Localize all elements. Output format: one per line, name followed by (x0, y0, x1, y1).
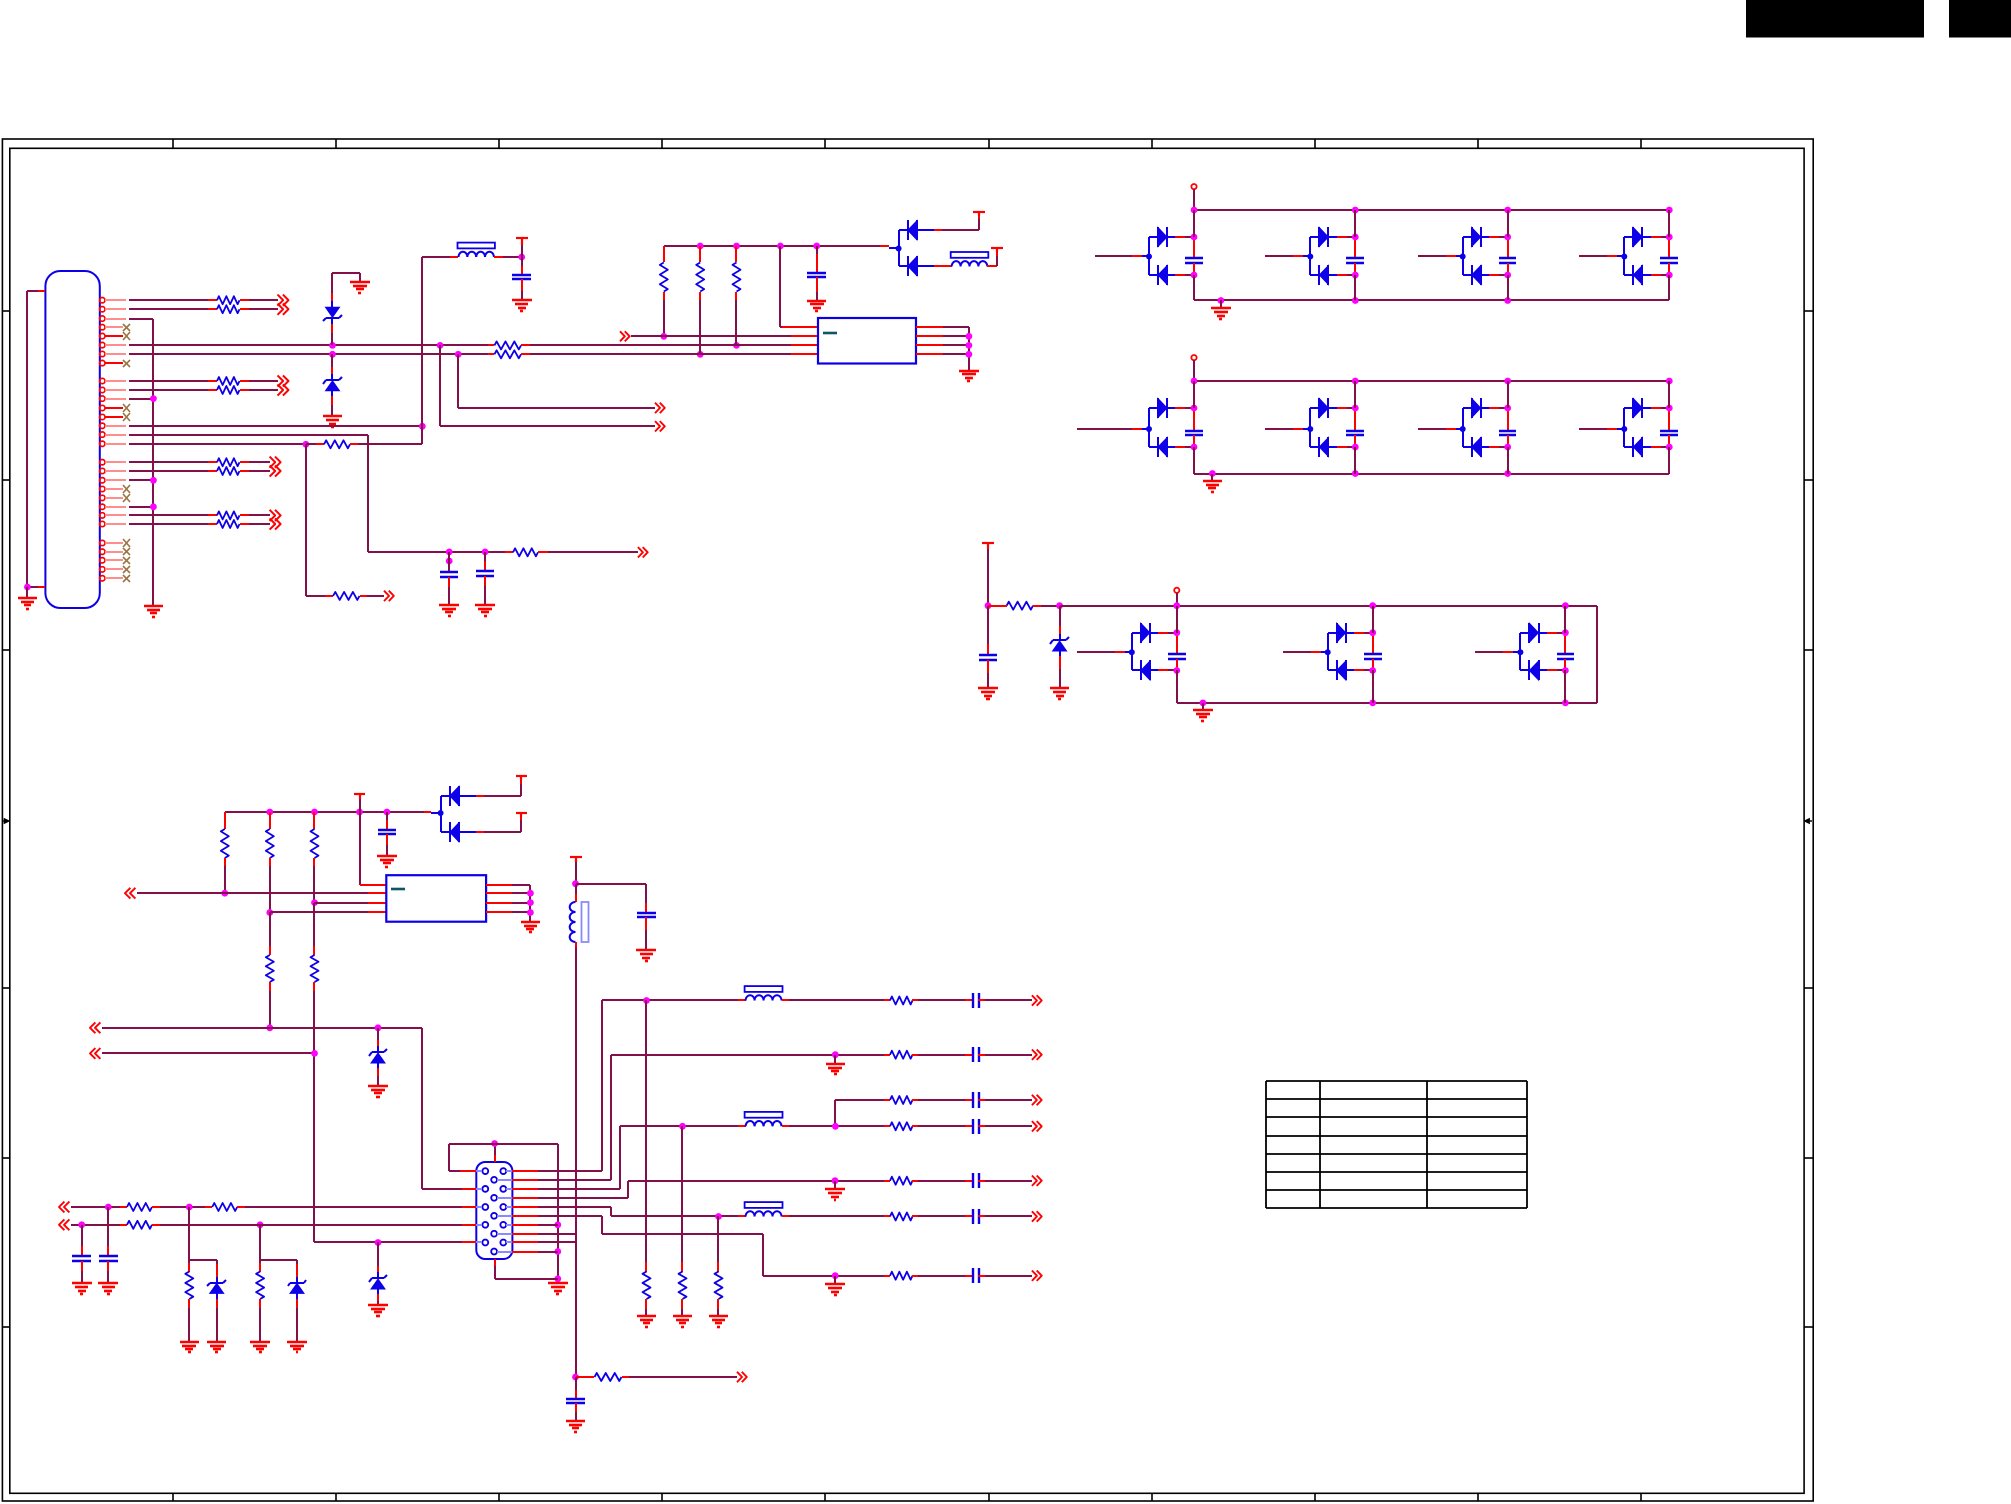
ground row1 (1211, 300, 1231, 319)
resistor R19 (266, 812, 274, 916)
clamp diode pair Q1c row1 cell3 (1418, 210, 1516, 300)
wire D5 bottom to VCC (484, 815, 521, 832)
wire D5 top to VCC (484, 778, 521, 796)
connector J1 body (45, 271, 99, 608)
clamp diode pair Q3c row3 cell3 (1475, 606, 1574, 703)
wire J2 pinI to DDC (512, 1241, 576, 1243)
wire pin19 to bus (129, 477, 157, 484)
wire FB2 to VCC (996, 250, 998, 266)
bottom rail row1 (1194, 297, 1669, 304)
right edge row3 (1596, 606, 1598, 703)
clamp diode pair Q2c row2 cell3 (1418, 381, 1516, 474)
wire J2 pinF to row G (512, 1216, 763, 1276)
power rail U2 (225, 809, 431, 816)
ground D9 (287, 1342, 307, 1352)
connector J1 pins (100, 298, 105, 582)
connector J2 pins middle column (491, 1177, 497, 1255)
regulator U1 mark (823, 332, 837, 335)
wire pin11 to bus (129, 395, 157, 402)
connector J2 pins right column (500, 1168, 506, 1245)
wire B row terminator (260, 1225, 297, 1264)
wire pin15 row (368, 549, 513, 565)
ground row G (825, 1276, 845, 1295)
regulator U2 box (386, 875, 486, 922)
resistor R21 (266, 912, 274, 1028)
wire R row terminator (189, 1207, 217, 1264)
resistor R10 on pin7 bus (494, 350, 818, 358)
wire rail to U1 pin1 (780, 246, 818, 327)
chevron input U2 (125, 888, 386, 899)
ground U1 (959, 371, 979, 381)
capacitor C7 (637, 913, 656, 950)
wire pin3 ground bus (129, 319, 153, 606)
wire zener top to ground (332, 273, 360, 282)
clamp diode pair Q3a row3 cell1 (1077, 606, 1186, 703)
zener D9 (288, 1264, 306, 1342)
power VCC T2 (973, 212, 985, 216)
resistor R18 (221, 812, 229, 897)
resistor R26 pulldown (679, 1126, 687, 1316)
resistor R20 (311, 812, 319, 906)
wire J2 pinG to ground bus (512, 1224, 558, 1226)
wire J2 pinA to row A (512, 1000, 602, 1171)
wire D3 top to VCC (942, 213, 979, 230)
wire T8 to C7 (576, 884, 646, 913)
wire J2 pinH to DDC (512, 1233, 576, 1235)
clamp diode pair Q1d row1 cell4 (1579, 210, 1678, 300)
ground R24 (250, 1342, 270, 1352)
wire connector shell bottom (24, 584, 45, 598)
wire J2 pinC to row D (512, 1126, 620, 1189)
signal row D output (620, 1112, 1042, 1134)
ground D6 (368, 1305, 388, 1316)
clamp diode pair Q3b row3 cell2 (1283, 606, 1382, 703)
power VCC T8 (570, 857, 582, 887)
wire pin14 (129, 423, 426, 430)
ground D8 (207, 1342, 226, 1352)
ground D4 (1050, 688, 1069, 699)
ground R25 (637, 1316, 656, 1327)
wire net pin6 bus (129, 342, 494, 349)
wire J2 pin5 left (314, 1053, 476, 1246)
ground pin bus (144, 606, 163, 617)
connector J1 pin stubs (105, 300, 126, 578)
chevron input B (59, 1219, 476, 1230)
resistor R25 pulldown (643, 1000, 651, 1316)
regulator U2 right pins (486, 885, 534, 922)
border center arrow left (2, 819, 9, 824)
zener D6 (369, 1242, 387, 1305)
clamp diode pair Q2b row2 cell2 (1265, 381, 1364, 474)
resistor R16 (733, 246, 741, 345)
power VCC T4 (982, 543, 994, 609)
clamp diode pair Q1a row1 cell1 (1095, 210, 1203, 300)
wire J2 shell top (449, 1140, 558, 1171)
power circle row1 (1191, 184, 1196, 210)
capacitor C3 (476, 552, 494, 605)
wire J2 pinJ to ground bus (512, 1251, 558, 1253)
capacitor C1 (512, 257, 531, 300)
resistor R24 (256, 1260, 264, 1342)
capacitor C6 (378, 812, 396, 856)
ground C8 (98, 1283, 118, 1294)
capacitor C2 (440, 552, 458, 605)
resistor R17 (988, 602, 1063, 610)
power VCC T7 (516, 813, 527, 817)
power rail U1 (664, 243, 889, 250)
ground C3 (475, 605, 495, 616)
power circle row3 (1174, 588, 1179, 606)
signal row G output (763, 1268, 1042, 1283)
signal row E output (628, 1173, 1042, 1188)
resistor R8 pin24 (129, 518, 281, 529)
resistor R4 pin10 (129, 384, 289, 395)
signal row C output (835, 1092, 1042, 1126)
resistor R11 pin16 (324, 440, 422, 448)
ground C7 (636, 950, 656, 961)
wire J2 ground bus (554, 1144, 561, 1283)
revision table (1266, 1081, 1527, 1208)
top rail row1 (1191, 207, 1673, 214)
wire U2 pin1 feed (360, 812, 386, 885)
ground C10 (566, 1421, 585, 1432)
clamp diode pair Q2a row2 cell1 (1077, 381, 1203, 474)
ground row E (825, 1181, 845, 1200)
ground connector shell (18, 598, 37, 609)
capacitor C8 (99, 1207, 118, 1283)
resistor R5 pin17 (129, 457, 281, 468)
wire pin16 riser (421, 257, 423, 444)
chevron input H (90, 1022, 422, 1033)
diode pack D5 (431, 786, 484, 842)
ferrite bead FB3 vertical (570, 884, 589, 1377)
ground zener D2 (323, 416, 342, 427)
ground row2 (1203, 474, 1222, 492)
wire net pin7 bus (129, 351, 494, 358)
ground C2 (439, 605, 459, 616)
resistor R13 (513, 547, 648, 557)
zener D4 (1050, 606, 1069, 688)
resistor R12 (333, 591, 394, 601)
title block mask 2 (1949, 0, 2011, 38)
wire U2 pin4 (270, 911, 386, 913)
capacitor C5 (979, 606, 997, 688)
resistor R1 pin1 (129, 295, 289, 306)
diode pack D3 (889, 220, 942, 276)
ground C6 (377, 856, 397, 867)
ground C5 (978, 688, 998, 699)
wire pin16 (129, 441, 324, 448)
top rail row2 (1191, 378, 1673, 385)
power circle row2 (1191, 355, 1196, 381)
wire U2 pin3 (314, 902, 386, 904)
clamp diode pair Q2d row2 cell4 (1579, 381, 1678, 474)
capacitor C10 (566, 1377, 585, 1421)
resistor R27 pulldown (715, 1216, 723, 1316)
regulator U1 right pins (916, 327, 972, 371)
wire J2 pinE to row F (512, 1207, 712, 1216)
zener D1 top (323, 273, 342, 345)
bottom rail row3 (1177, 700, 1597, 707)
resistor R3 pin9 (129, 375, 289, 386)
chevron input R (59, 1202, 476, 1213)
signal row A output (602, 986, 1042, 1008)
chevron input net (620, 331, 818, 341)
wire connector shell top (27, 291, 45, 587)
resistor R9 on pin6 bus (494, 341, 818, 349)
power VCC T1 (516, 238, 528, 257)
clamp diode pair Q1b row1 cell2 (1265, 210, 1364, 300)
resistor R14 (660, 246, 668, 336)
resistor R7 pin23 (129, 510, 281, 521)
wire branch pin6 chevron (440, 345, 665, 432)
resistor R28 DDC (572, 1372, 747, 1382)
power VCC T6 (516, 776, 527, 780)
regulator U2 mark (391, 888, 405, 891)
ground J2 bus (548, 1283, 568, 1294)
ground U2 (521, 922, 540, 932)
connector J2 pins left column (482, 1168, 488, 1245)
zener D7 (369, 1028, 387, 1086)
connector J2 VGA body (476, 1162, 512, 1259)
power VCC T5 (354, 794, 365, 812)
resistor R6 pin18 (129, 465, 281, 476)
no-connect X marks (123, 324, 130, 582)
bottom rail row2 (1194, 470, 1669, 477)
top rail row3 (1060, 602, 1597, 609)
connector J2 internal leads (476, 1171, 512, 1252)
regulator U1 box (818, 318, 916, 364)
ground row B (826, 1055, 845, 1074)
wire pin16 drop (306, 444, 333, 596)
ground C4 (807, 301, 826, 311)
ground C9 (72, 1283, 92, 1294)
capacitor C9 (72, 1225, 91, 1283)
ferrite bead FB2 (942, 252, 997, 266)
resistor R15 (696, 246, 704, 354)
wire pin15 (129, 435, 368, 552)
signal row B output (611, 1047, 1042, 1062)
power VCC T3 (991, 248, 1003, 252)
zener D2 lower (323, 354, 342, 416)
ferrite bead FB1 (422, 243, 525, 261)
border center arrow right (1804, 819, 1812, 824)
ground R23 (180, 1342, 199, 1352)
ground row3 (1193, 703, 1213, 721)
zener D8 (207, 1264, 226, 1342)
resistor R23 (185, 1260, 193, 1342)
wire pin22 to bus (129, 503, 157, 510)
ground C1 (512, 300, 532, 311)
ground R27 (709, 1316, 728, 1327)
capacitor C4 (807, 246, 826, 301)
wire J2 pin2 left (422, 1028, 476, 1189)
signal row F output (611, 1202, 1042, 1224)
ground D7 (368, 1086, 388, 1097)
border column ticks (173, 139, 1641, 1501)
resistor R2 pin2 (129, 304, 289, 315)
title block mask 1 (1746, 0, 1924, 38)
chevron input V (90, 1048, 318, 1059)
border row ticks (2, 311, 1813, 1327)
resistor R22 (311, 903, 319, 1053)
wire J2 pinD to row E (512, 1181, 628, 1198)
wire branch pin7 chevron (458, 354, 665, 413)
wire J2 pinB to row B (512, 1055, 611, 1180)
wire J2 shell bottom (495, 1259, 558, 1279)
ground zener D1 (350, 282, 370, 293)
ground R26 (673, 1316, 692, 1327)
